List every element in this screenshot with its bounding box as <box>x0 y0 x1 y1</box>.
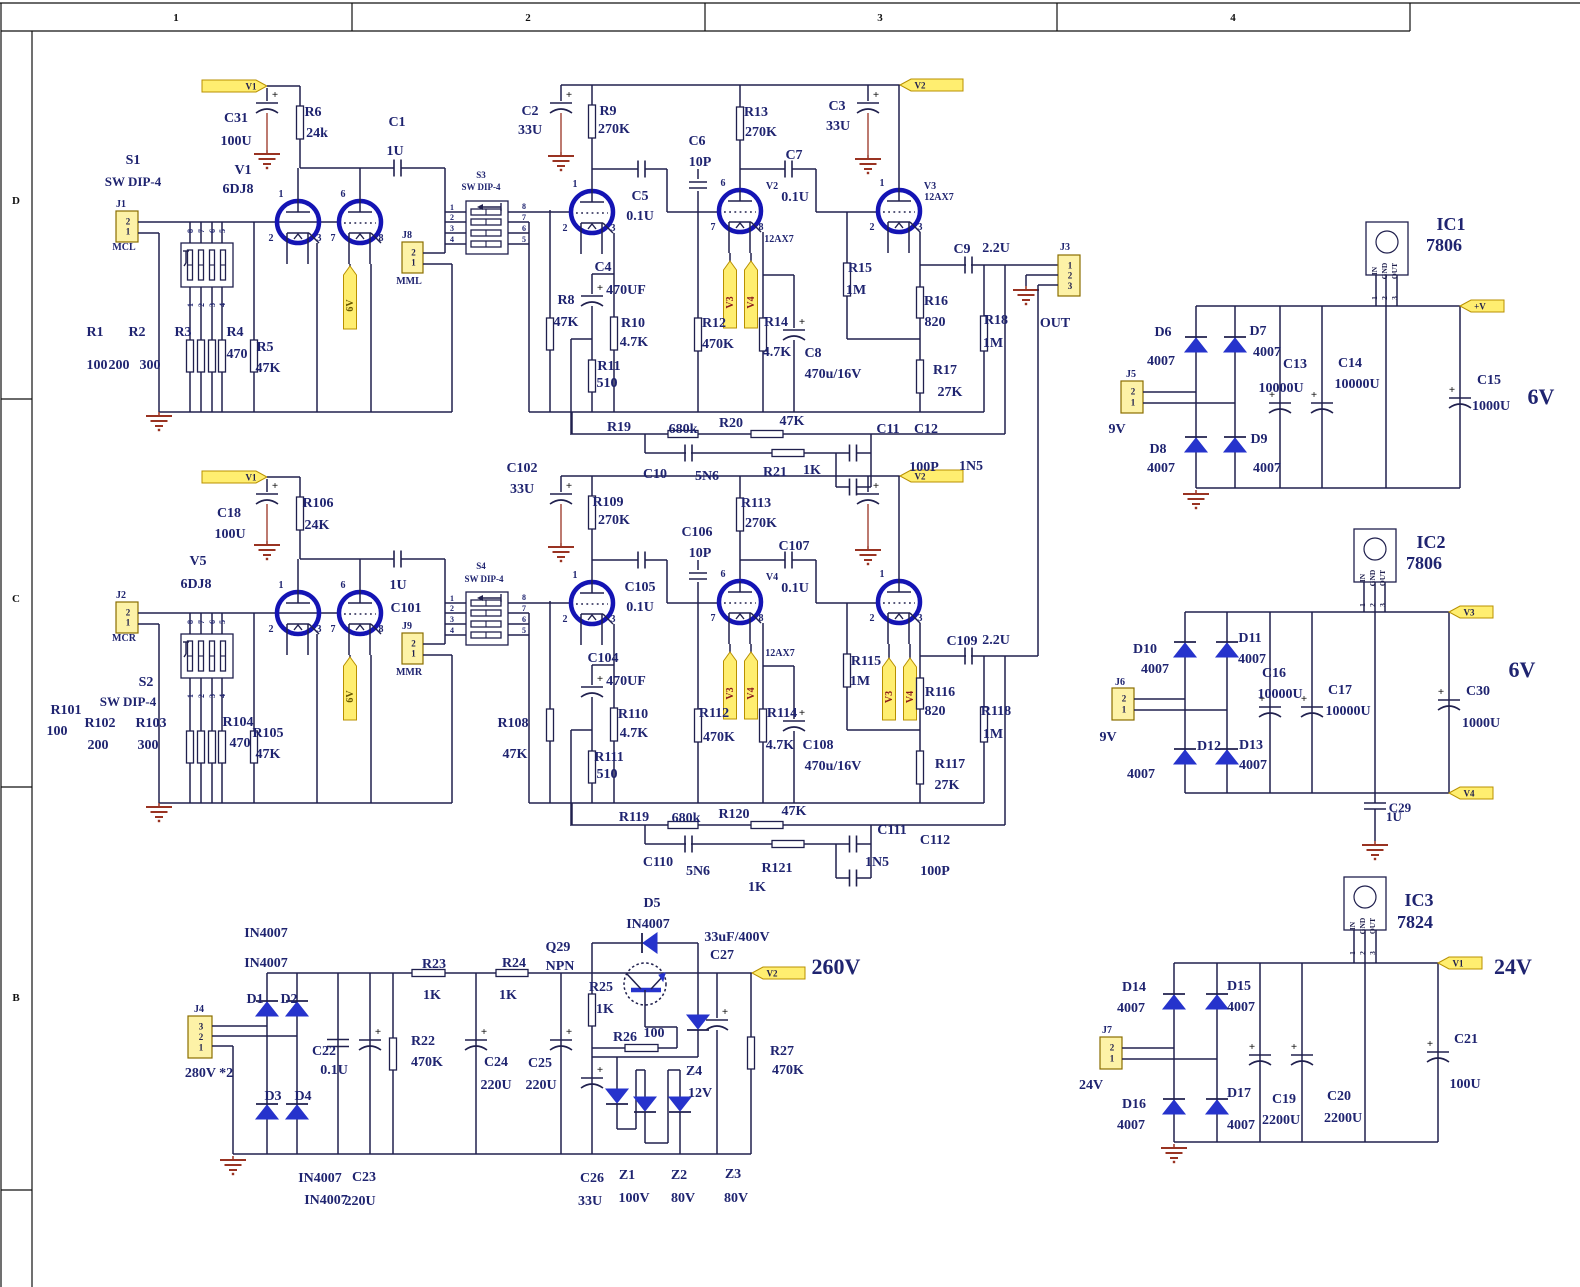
svg-text:510: 510 <box>597 376 618 391</box>
svg-text:R105: R105 <box>252 726 283 741</box>
svg-text:R2: R2 <box>128 325 145 340</box>
svg-text:+: + <box>1449 384 1455 396</box>
svg-text:2200U: 2200U <box>1262 1113 1300 1128</box>
svg-text:1: 1 <box>1068 260 1073 270</box>
svg-text:510: 510 <box>597 767 618 782</box>
svg-text:0.1U: 0.1U <box>781 581 809 596</box>
svg-text:R119: R119 <box>619 810 649 825</box>
svg-text:IN4007: IN4007 <box>626 917 670 932</box>
svg-text:0.1U: 0.1U <box>781 190 809 205</box>
svg-text:C4: C4 <box>594 260 611 275</box>
svg-text:R8: R8 <box>557 293 574 308</box>
svg-text:470u/16V: 470u/16V <box>805 367 862 382</box>
svg-text:4007: 4007 <box>1239 758 1267 773</box>
svg-text:33uF/400V: 33uF/400V <box>704 930 769 945</box>
svg-text:4007: 4007 <box>1117 1001 1145 1016</box>
svg-text:100U: 100U <box>214 527 245 542</box>
svg-text:3: 3 <box>450 224 454 233</box>
svg-text:C14: C14 <box>1338 356 1362 371</box>
svg-text:+: + <box>1291 1041 1297 1053</box>
svg-text:100V: 100V <box>618 1191 649 1206</box>
svg-text:1U: 1U <box>386 144 403 159</box>
svg-text:V4: V4 <box>905 691 916 703</box>
svg-text:V4: V4 <box>766 572 778 583</box>
svg-text:C12: C12 <box>914 422 938 437</box>
svg-text:8: 8 <box>759 613 764 624</box>
svg-text:V1: V1 <box>246 473 257 483</box>
svg-text:7824: 7824 <box>1397 912 1433 932</box>
svg-text:C1: C1 <box>388 115 405 130</box>
svg-text:1: 1 <box>573 570 578 581</box>
svg-text:R118: R118 <box>981 704 1011 719</box>
svg-text:270K: 270K <box>598 513 630 528</box>
svg-text:D13: D13 <box>1239 738 1263 753</box>
svg-text:6DJ8: 6DJ8 <box>222 182 253 197</box>
svg-text:300: 300 <box>140 358 161 373</box>
svg-text:V5: V5 <box>189 554 206 569</box>
svg-text:270K: 270K <box>745 516 777 531</box>
svg-text:4007: 4007 <box>1147 354 1175 369</box>
svg-text:280V *2: 280V *2 <box>185 1066 233 1081</box>
svg-text:C111: C111 <box>877 823 907 838</box>
svg-text:470: 470 <box>230 736 251 751</box>
svg-text:1: 1 <box>450 203 454 212</box>
svg-text:R106: R106 <box>302 496 333 511</box>
svg-text:2: 2 <box>870 613 875 624</box>
svg-text:V1: V1 <box>246 82 257 92</box>
svg-text:D9: D9 <box>1250 432 1267 447</box>
svg-text:C109: C109 <box>946 634 977 649</box>
svg-text:2.2U: 2.2U <box>982 241 1010 256</box>
svg-text:2: 2 <box>411 247 416 257</box>
svg-text:IC2: IC2 <box>1416 532 1445 552</box>
svg-text:IC1: IC1 <box>1436 214 1465 234</box>
svg-text:80V: 80V <box>724 1191 748 1206</box>
svg-text:9V: 9V <box>1108 422 1125 437</box>
svg-text:MCR: MCR <box>112 633 137 644</box>
svg-text:1N5: 1N5 <box>865 855 889 870</box>
svg-text:1M: 1M <box>983 727 1003 742</box>
svg-text:2: 2 <box>269 233 274 244</box>
svg-text:1: 1 <box>450 594 454 603</box>
svg-text:IN: IN <box>1358 573 1367 582</box>
svg-text:MCL: MCL <box>112 242 136 253</box>
svg-text:C16: C16 <box>1262 666 1286 681</box>
svg-text:5: 5 <box>218 229 227 233</box>
svg-text:J2: J2 <box>116 590 126 601</box>
svg-text:Z4: Z4 <box>686 1064 702 1079</box>
svg-text:+: + <box>566 480 572 492</box>
svg-text:D12: D12 <box>1197 739 1221 754</box>
svg-text:3: 3 <box>317 624 322 635</box>
svg-text:2: 2 <box>450 213 454 222</box>
svg-text:R17: R17 <box>933 363 957 378</box>
svg-text:C2: C2 <box>521 104 538 119</box>
svg-text:C25: C25 <box>528 1056 552 1071</box>
svg-text:R102: R102 <box>84 716 115 731</box>
svg-text:47K: 47K <box>782 804 807 819</box>
svg-text:IN: IN <box>1348 921 1357 930</box>
svg-text:+: + <box>873 480 879 492</box>
svg-text:24K: 24K <box>305 518 330 533</box>
svg-text:4: 4 <box>218 694 227 698</box>
svg-text:C8: C8 <box>804 346 821 361</box>
svg-text:V2: V2 <box>766 181 778 192</box>
svg-text:+: + <box>1311 389 1317 401</box>
svg-text:12V: 12V <box>688 1086 712 1101</box>
svg-text:200: 200 <box>88 738 109 753</box>
svg-text:V3: V3 <box>1464 608 1475 618</box>
svg-text:470K: 470K <box>411 1055 443 1070</box>
svg-text:R10: R10 <box>621 316 645 331</box>
svg-text:C3: C3 <box>828 99 845 114</box>
svg-text:R5: R5 <box>256 340 273 355</box>
svg-text:6V: 6V <box>1509 657 1536 682</box>
svg-text:D3: D3 <box>264 1089 281 1104</box>
svg-text:24V: 24V <box>1079 1078 1103 1093</box>
svg-text:100U: 100U <box>220 134 251 149</box>
svg-text:+: + <box>799 707 805 719</box>
svg-text:2: 2 <box>1380 296 1389 300</box>
svg-text:6V: 6V <box>345 299 356 312</box>
svg-text:C6: C6 <box>688 134 705 149</box>
svg-text:100: 100 <box>644 1026 665 1041</box>
svg-text:1: 1 <box>199 1043 204 1053</box>
svg-text:4007: 4007 <box>1253 461 1281 476</box>
svg-text:3: 3 <box>918 613 923 624</box>
svg-text:1: 1 <box>1370 296 1379 300</box>
svg-text:Z1: Z1 <box>619 1168 635 1183</box>
svg-text:V4: V4 <box>746 687 757 699</box>
svg-text:C19: C19 <box>1272 1092 1296 1107</box>
svg-text:R20: R20 <box>719 416 743 431</box>
svg-text:C108: C108 <box>802 738 833 753</box>
svg-text:220U: 220U <box>525 1078 556 1093</box>
svg-text:4: 4 <box>218 303 227 307</box>
svg-text:260V: 260V <box>812 954 861 979</box>
svg-text:2: 2 <box>1068 271 1073 281</box>
svg-text:+: + <box>272 480 278 492</box>
svg-text:1M: 1M <box>846 283 866 298</box>
svg-text:S3: S3 <box>476 170 486 180</box>
svg-text:C11: C11 <box>876 422 899 437</box>
svg-text:4007: 4007 <box>1147 461 1175 476</box>
svg-text:4007: 4007 <box>1253 345 1281 360</box>
svg-text:6V: 6V <box>345 690 356 703</box>
svg-text:820: 820 <box>925 315 946 330</box>
svg-text:IC3: IC3 <box>1404 890 1433 910</box>
svg-text:+: + <box>566 1026 572 1038</box>
svg-text:10000U: 10000U <box>1334 377 1379 392</box>
svg-text:1K: 1K <box>596 1002 614 1017</box>
svg-text:+V: +V <box>1474 302 1486 312</box>
svg-text:R24: R24 <box>502 956 526 971</box>
svg-text:1: 1 <box>411 649 416 659</box>
svg-text:1000U: 1000U <box>1472 399 1510 414</box>
svg-text:3: 3 <box>208 303 217 307</box>
svg-text:1: 1 <box>411 258 416 268</box>
svg-text:2: 2 <box>563 614 568 625</box>
svg-text:2200U: 2200U <box>1324 1111 1362 1126</box>
svg-text:V3: V3 <box>725 296 736 308</box>
svg-text:10P: 10P <box>689 546 712 561</box>
svg-text:1N5: 1N5 <box>959 459 983 474</box>
svg-text:7: 7 <box>197 620 206 624</box>
svg-text:3: 3 <box>450 615 454 624</box>
svg-text:3: 3 <box>611 223 616 234</box>
svg-text:R109: R109 <box>592 495 623 510</box>
svg-text:R18: R18 <box>984 313 1008 328</box>
svg-text:SW DIP-4: SW DIP-4 <box>100 694 157 709</box>
svg-text:4007: 4007 <box>1117 1118 1145 1133</box>
svg-text:C9: C9 <box>953 242 970 257</box>
svg-text:D2: D2 <box>280 992 297 1007</box>
svg-text:7806: 7806 <box>1426 235 1462 255</box>
svg-text:12AX7: 12AX7 <box>765 648 794 659</box>
svg-text:100U: 100U <box>1449 1077 1480 1092</box>
svg-text:470UF: 470UF <box>606 674 646 689</box>
svg-text:100: 100 <box>47 724 68 739</box>
svg-text:NPN: NPN <box>546 959 575 974</box>
svg-text:R25: R25 <box>589 980 613 995</box>
svg-text:R15: R15 <box>848 261 872 276</box>
svg-text:+: + <box>597 673 603 685</box>
svg-text:C21: C21 <box>1454 1032 1478 1047</box>
svg-text:S4: S4 <box>476 561 486 571</box>
svg-text:0.1U: 0.1U <box>626 209 654 224</box>
svg-text:1000U: 1000U <box>1462 716 1500 731</box>
svg-text:9V: 9V <box>1099 730 1116 745</box>
svg-text:4007: 4007 <box>1127 767 1155 782</box>
svg-text:1: 1 <box>126 618 131 628</box>
svg-text:33U: 33U <box>578 1194 602 1209</box>
svg-text:12AX7: 12AX7 <box>764 234 793 245</box>
svg-text:1M: 1M <box>983 336 1003 351</box>
svg-text:27K: 27K <box>938 385 963 400</box>
svg-text:200: 200 <box>109 358 130 373</box>
svg-text:C102: C102 <box>506 461 537 476</box>
svg-text:1U: 1U <box>1386 809 1403 824</box>
svg-text:R11: R11 <box>597 359 620 374</box>
svg-text:C106: C106 <box>681 525 712 540</box>
svg-text:4007: 4007 <box>1238 652 1266 667</box>
svg-text:+: + <box>873 89 879 101</box>
svg-text:J4: J4 <box>194 1004 204 1015</box>
svg-text:470K: 470K <box>772 1063 804 1078</box>
svg-text:R114: R114 <box>767 706 797 721</box>
svg-text:1: 1 <box>880 178 885 189</box>
svg-text:33U: 33U <box>510 482 534 497</box>
svg-text:C112: C112 <box>920 833 950 848</box>
svg-text:680k: 680k <box>669 422 698 437</box>
svg-text:7806: 7806 <box>1406 553 1442 573</box>
svg-text:3: 3 <box>199 1022 204 1032</box>
svg-text:D7: D7 <box>1249 324 1266 339</box>
svg-text:10000U: 10000U <box>1258 381 1303 396</box>
svg-text:Q29: Q29 <box>546 940 571 955</box>
svg-text:100: 100 <box>87 358 108 373</box>
svg-text:C20: C20 <box>1327 1089 1351 1104</box>
svg-text:R104: R104 <box>222 715 253 730</box>
svg-text:220U: 220U <box>480 1078 511 1093</box>
svg-text:5N6: 5N6 <box>686 864 710 879</box>
svg-text:2: 2 <box>1122 694 1127 704</box>
svg-text:R103: R103 <box>135 716 166 731</box>
svg-text:6: 6 <box>721 569 726 580</box>
svg-text:2: 2 <box>563 223 568 234</box>
svg-text:4007: 4007 <box>1227 1118 1255 1133</box>
svg-text:V2: V2 <box>767 969 778 979</box>
svg-text:+: + <box>566 89 572 101</box>
svg-text:3: 3 <box>317 233 322 244</box>
svg-text:V3: V3 <box>924 181 936 192</box>
svg-text:C18: C18 <box>217 506 241 521</box>
svg-text:R1: R1 <box>86 325 103 340</box>
svg-text:+: + <box>375 1026 381 1038</box>
svg-text:C13: C13 <box>1283 357 1307 372</box>
svg-text:1U: 1U <box>389 578 406 593</box>
svg-text:IN4007: IN4007 <box>304 1193 348 1208</box>
svg-text:C17: C17 <box>1328 683 1352 698</box>
svg-text:470u/16V: 470u/16V <box>805 759 862 774</box>
svg-text:SW DIP-4: SW DIP-4 <box>464 574 504 584</box>
svg-text:B: B <box>12 992 20 1004</box>
svg-text:8: 8 <box>522 202 526 211</box>
svg-text:C31: C31 <box>224 111 248 126</box>
svg-text:220U: 220U <box>344 1194 375 1209</box>
svg-text:R12: R12 <box>702 316 726 331</box>
svg-text:2: 2 <box>411 638 416 648</box>
svg-text:J5: J5 <box>1126 369 1136 380</box>
svg-text:J8: J8 <box>402 230 412 241</box>
svg-text:1K: 1K <box>423 988 441 1003</box>
svg-text:S1: S1 <box>126 153 141 168</box>
svg-text:7: 7 <box>197 229 206 233</box>
svg-text:47K: 47K <box>780 414 805 429</box>
svg-text:47K: 47K <box>554 315 579 330</box>
svg-text:C107: C107 <box>778 539 809 554</box>
svg-text:C23: C23 <box>352 1170 376 1185</box>
svg-text:V4: V4 <box>746 296 757 308</box>
svg-text:1: 1 <box>1122 704 1127 714</box>
svg-text:2: 2 <box>126 216 131 226</box>
svg-text:+: + <box>597 282 603 294</box>
svg-text:C26: C26 <box>580 1171 604 1186</box>
svg-text:4: 4 <box>450 235 454 244</box>
svg-text:1: 1 <box>279 580 284 591</box>
svg-text:2: 2 <box>1131 387 1136 397</box>
svg-text:1: 1 <box>1358 603 1367 607</box>
svg-text:7: 7 <box>331 233 336 244</box>
svg-text:4: 4 <box>450 626 454 635</box>
svg-text:+: + <box>1249 1041 1255 1053</box>
svg-text:R117: R117 <box>935 757 965 772</box>
svg-text:10000U: 10000U <box>1257 687 1302 702</box>
svg-text:5: 5 <box>218 620 227 624</box>
svg-text:33U: 33U <box>518 123 542 138</box>
svg-text:1K: 1K <box>748 880 766 895</box>
svg-text:2.2U: 2.2U <box>982 633 1010 648</box>
svg-text:6: 6 <box>341 189 346 200</box>
svg-text:IN: IN <box>1370 266 1379 275</box>
svg-text:6: 6 <box>208 229 217 233</box>
svg-text:470K: 470K <box>702 337 734 352</box>
svg-text:2: 2 <box>1110 1043 1115 1053</box>
svg-text:8: 8 <box>379 624 384 635</box>
svg-text:1: 1 <box>279 189 284 200</box>
svg-text:2: 2 <box>269 624 274 635</box>
svg-text:6: 6 <box>721 178 726 189</box>
svg-text:V2: V2 <box>915 81 926 91</box>
svg-text:4.7K: 4.7K <box>763 345 792 360</box>
svg-text:1: 1 <box>173 12 179 24</box>
svg-text:7: 7 <box>522 604 526 613</box>
svg-text:2: 2 <box>870 222 875 233</box>
svg-text:470: 470 <box>227 347 248 362</box>
svg-text:8: 8 <box>379 233 384 244</box>
svg-text:R111: R111 <box>594 750 624 765</box>
svg-text:1: 1 <box>1131 397 1136 407</box>
svg-text:R9: R9 <box>599 104 616 119</box>
svg-text:R4: R4 <box>226 325 243 340</box>
svg-text:4007: 4007 <box>1141 662 1169 677</box>
svg-text:7: 7 <box>711 222 716 233</box>
svg-text:3: 3 <box>1068 281 1073 291</box>
svg-text:C15: C15 <box>1477 373 1501 388</box>
svg-text:24k: 24k <box>306 126 328 141</box>
svg-text:+: + <box>799 316 805 328</box>
svg-text:12AX7: 12AX7 <box>924 192 953 203</box>
svg-text:5: 5 <box>522 626 526 635</box>
svg-text:2: 2 <box>197 303 206 307</box>
svg-text:R3: R3 <box>174 325 191 340</box>
svg-text:47K: 47K <box>503 747 528 762</box>
svg-text:R110: R110 <box>618 707 648 722</box>
svg-text:Z3: Z3 <box>725 1167 741 1182</box>
svg-text:IN4007: IN4007 <box>244 956 288 971</box>
svg-text:C27: C27 <box>710 948 734 963</box>
svg-text:C101: C101 <box>390 601 421 616</box>
svg-text:1: 1 <box>126 227 131 237</box>
svg-text:+: + <box>481 1026 487 1038</box>
svg-text:8: 8 <box>186 620 195 624</box>
svg-text:MML: MML <box>396 276 422 287</box>
svg-text:0.1U: 0.1U <box>626 600 654 615</box>
svg-text:D17: D17 <box>1227 1086 1251 1101</box>
svg-text:6: 6 <box>522 224 526 233</box>
svg-text:7: 7 <box>711 613 716 624</box>
svg-text:R19: R19 <box>607 420 631 435</box>
svg-text:1: 1 <box>186 303 195 307</box>
svg-text:D6: D6 <box>1154 325 1171 340</box>
svg-text:D10: D10 <box>1133 642 1157 657</box>
svg-text:6: 6 <box>522 615 526 624</box>
svg-text:C: C <box>12 593 20 605</box>
svg-text:1M: 1M <box>850 674 870 689</box>
svg-text:47K: 47K <box>256 747 281 762</box>
svg-text:R21: R21 <box>763 465 787 480</box>
svg-text:3: 3 <box>877 12 883 24</box>
svg-text:C5: C5 <box>631 189 648 204</box>
svg-text:R22: R22 <box>411 1034 435 1049</box>
svg-text:C104: C104 <box>587 651 618 666</box>
svg-text:+: + <box>722 1006 728 1018</box>
svg-text:5: 5 <box>522 235 526 244</box>
svg-text:J9: J9 <box>402 621 412 632</box>
svg-text:R13: R13 <box>744 105 768 120</box>
svg-text:R27: R27 <box>770 1044 794 1059</box>
svg-text:R14: R14 <box>764 315 788 330</box>
